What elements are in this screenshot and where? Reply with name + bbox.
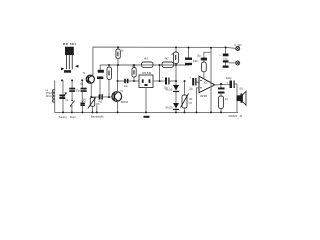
potentiometer P1 — [84, 97, 101, 113]
ground — [144, 116, 150, 118]
svg-text:C4: C4 — [80, 84, 84, 86]
capacitor C10 — [189, 77, 199, 91]
svg-text:10n: 10n — [124, 85, 129, 88]
capacitor C14 supply — [219, 47, 236, 63]
svg-text:4k7: 4k7 — [165, 57, 170, 61]
svg-text:9..12V: 9..12V — [235, 44, 243, 47]
wire mid rail — [100, 64, 189, 66]
capacitor C8 — [185, 48, 199, 66]
wire detector column — [175, 65, 177, 85]
resistor R3 — [116, 47, 124, 65]
svg-text:BF494: BF494 — [121, 101, 129, 104]
wire T2 collector — [117, 65, 119, 92]
svg-text:10: 10 — [225, 98, 228, 101]
wire volume node — [184, 81, 186, 95]
wire output — [215, 83, 230, 86]
capacitor C12 zobel — [218, 84, 225, 96]
capacitor C3 — [81, 80, 87, 103]
wire node down — [159, 65, 161, 81]
electrolytic C5 — [97, 65, 104, 94]
svg-text:LM386: LM386 — [200, 96, 208, 98]
svg-text:455E: 455E — [142, 71, 151, 75]
wire T1 emitter to P1 — [90, 83, 92, 97]
transistor T1 — [80, 72, 94, 86]
svg-text:10µ: 10µ — [189, 88, 194, 91]
capacitor C4 — [99, 94, 113, 103]
electrolytic C9 — [162, 76, 176, 90]
potentiometer P2 — [181, 94, 194, 113]
resistor R4 — [142, 57, 154, 68]
svg-text:IC1: IC1 — [204, 82, 208, 85]
electrolytic C11 and resistor R7 gain network — [197, 52, 212, 78]
svg-text:+: + — [219, 54, 221, 57]
svg-text:BD 681: BD 681 — [63, 42, 76, 46]
op-amp IC1 — [199, 76, 215, 98]
wire filter bottom — [145, 88, 147, 113]
capacitor C2 — [69, 80, 80, 92]
electrolytic C13 — [226, 77, 237, 88]
resistor R5 — [162, 57, 174, 68]
capacitor C7 — [124, 79, 129, 88]
wire IC1 gnd pins — [197, 88, 200, 113]
diode D2 — [166, 103, 180, 112]
wire filter out — [153, 80, 165, 82]
svg-text:+: + — [190, 77, 192, 80]
wire base line — [90, 96, 98, 98]
diode D1 — [166, 85, 180, 103]
svg-text:4k7: 4k7 — [144, 57, 149, 61]
resistor R9 — [132, 65, 137, 81]
svg-text:1k: 1k — [121, 50, 124, 53]
loudspeaker LS1 — [237, 84, 247, 112]
switch S1 — [70, 92, 75, 113]
varicap C1 — [59, 80, 69, 112]
svg-text:T2: T2 — [120, 91, 123, 93]
transistor package BD681 pinout — [61, 42, 78, 72]
svg-text:AA119: AA119 — [166, 107, 173, 110]
wire top supply rail — [93, 47, 236, 75]
svg-text:8Ω: 8Ω — [240, 88, 243, 91]
svg-text:AA119: AA119 — [166, 89, 173, 92]
resistor R8 zobel — [219, 96, 229, 112]
battery terminal plus — [235, 44, 243, 51]
capacitor C3b — [80, 103, 85, 113]
svg-text:40mm: 40mm — [46, 95, 53, 98]
svg-text:Tuning: Tuning — [59, 115, 68, 119]
svg-text:Start: Start — [70, 115, 76, 119]
svg-text:020322 - 11: 020322 - 11 — [229, 114, 243, 118]
svg-text:Bandwidth: Bandwidth — [91, 115, 104, 119]
battery terminal minus — [236, 61, 240, 65]
svg-text:log: log — [189, 102, 193, 105]
svg-text:+: + — [162, 76, 164, 79]
svg-text:10k: 10k — [171, 53, 176, 56]
svg-text:100n: 100n — [193, 60, 199, 63]
junction dots — [61, 46, 227, 113]
wire node to filter — [118, 80, 140, 82]
svg-text:39p: 39p — [76, 90, 81, 93]
svg-text:10µ: 10µ — [197, 55, 202, 58]
resistor R2 — [107, 65, 112, 97]
svg-text:4n7: 4n7 — [99, 100, 104, 103]
ground supply — [223, 63, 229, 68]
svg-text:T1: T1 — [83, 72, 87, 75]
wire bottom ground rail — [55, 80, 238, 112]
wire T2 emitter — [117, 102, 119, 112]
resistor R6 — [171, 47, 179, 65]
inductor L1 coil — [46, 89, 55, 102]
ceramic filter FL1 — [139, 71, 153, 88]
svg-text:P1: P1 — [84, 99, 88, 102]
transistor T2 — [112, 91, 129, 104]
svg-text:C1: C1 — [66, 100, 70, 102]
svg-text:220µ: 220µ — [226, 77, 232, 80]
